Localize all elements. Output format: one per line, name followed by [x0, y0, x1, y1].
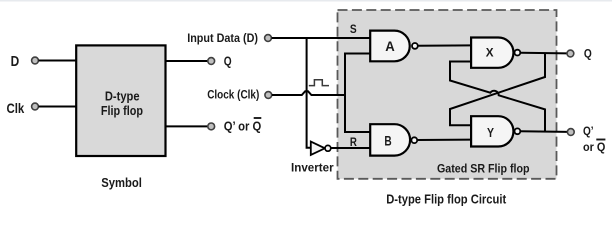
- wire gate A output to gate X top input: [418, 44, 472, 46]
- clock pulse symbol: [309, 80, 329, 86]
- nand gate B: [370, 124, 417, 155]
- svg-text:Clock (Clk): Clock (Clk): [207, 87, 259, 101]
- wire feedback from Y output to X bottom input (with hop at crossing): [450, 62, 545, 132]
- svg-text:B: B: [384, 132, 391, 148]
- svg-text:Flip flop: Flip flop: [101, 104, 143, 118]
- terminal Q (circuit): [567, 50, 574, 57]
- svg-text:Y: Y: [487, 126, 494, 140]
- svg-text:Symbol: Symbol: [101, 176, 142, 190]
- wire D to symbol box: [39, 60, 76, 62]
- nand gate A: [370, 31, 418, 62]
- wire clock tee vertical: [345, 54, 371, 133]
- svg-text:X: X: [486, 46, 494, 60]
- wire feedback from X output to Y top input: [450, 53, 545, 125]
- terminal Clock: [265, 92, 272, 99]
- wire symbol box to Q terminal: [166, 60, 208, 62]
- nand gate Y: [471, 116, 520, 146]
- terminal Q' (symbol): [208, 123, 215, 130]
- svg-text:Clk: Clk: [7, 100, 25, 116]
- svg-text:Q: Q: [224, 54, 232, 69]
- svg-text:Input Data (D): Input Data (D): [187, 31, 258, 45]
- svg-text:Gated SR Flip flop: Gated SR Flip flop: [437, 161, 530, 175]
- svg-text:R: R: [350, 137, 358, 149]
- wire gate B output to gate Y bottom input: [417, 139, 471, 141]
- svg-text:Q’: Q’: [583, 124, 594, 138]
- nand gate X: [471, 38, 520, 68]
- wire vertical drop from D line to inverter: [307, 38, 311, 148]
- wire Clock to tee (with hop over vertical D line): [272, 91, 346, 95]
- svg-text:Q’ or Q: Q’ or Q: [224, 118, 262, 133]
- wire gate Y output to terminal Q': [520, 130, 567, 133]
- terminal Input Data: [265, 35, 272, 42]
- svg-text:Q: Q: [584, 47, 592, 61]
- terminal Q' (circuit): [567, 129, 574, 136]
- wire inverter output to gate B bottom input: [331, 147, 371, 149]
- D-type flip flop symbol box: [76, 45, 165, 156]
- svg-text:or Q: or Q: [583, 140, 605, 154]
- svg-text:S: S: [350, 24, 357, 36]
- inverter U1: [311, 142, 331, 155]
- svg-text:D: D: [11, 54, 20, 70]
- terminal Q (symbol): [208, 58, 215, 65]
- svg-text:D-type: D-type: [105, 90, 140, 104]
- wire Clk to symbol box: [39, 106, 76, 108]
- wire symbol box to Q' terminal: [166, 125, 208, 127]
- terminal D: [32, 57, 39, 64]
- node Q' or Qbar label (symbol): [224, 118, 262, 133]
- dashed box: Gated SR Flip flop: [338, 10, 557, 179]
- wire gate X output to terminal Q: [520, 52, 567, 55]
- svg-text:A: A: [385, 38, 395, 54]
- node or Qbar label (circuit): [583, 140, 605, 155]
- wire Input Data to gate A top input: [272, 37, 371, 39]
- terminal Clk: [32, 103, 39, 110]
- svg-text:Inverter: Inverter: [291, 163, 334, 175]
- svg-text:D-type Flip flop Circuit: D-type Flip flop Circuit: [386, 192, 507, 206]
